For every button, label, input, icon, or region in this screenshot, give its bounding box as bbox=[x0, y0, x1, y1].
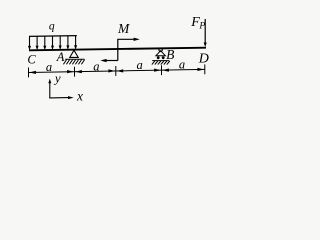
svg-text:P: P bbox=[198, 22, 205, 32]
dimension tick at A bbox=[74, 67, 76, 77]
roller support B hinge circle bbox=[159, 48, 162, 51]
pin support A triangle bbox=[70, 50, 78, 57]
svg-text:a: a bbox=[136, 58, 142, 72]
distributed load arrow 3 bbox=[43, 36, 46, 50]
force F_P arrow at D bbox=[204, 19, 206, 43]
distributed load arrow 4 bbox=[51, 36, 54, 50]
svg-text:a: a bbox=[46, 60, 52, 74]
dimension tick at C bbox=[28, 68, 30, 78]
y axis bbox=[49, 83, 51, 99]
dimension line C to D bbox=[29, 69, 206, 72]
svg-text:a: a bbox=[93, 60, 99, 74]
dimension arrowheads segment 2 bbox=[75, 70, 82, 73]
dimension tick at D bbox=[204, 64, 206, 74]
svg-text:a: a bbox=[179, 58, 185, 72]
svg-text:C: C bbox=[27, 52, 36, 66]
distributed load arrow 2 bbox=[36, 36, 39, 50]
pin support A ground line bbox=[65, 58, 84, 60]
dimension tick at M point bbox=[115, 66, 117, 76]
distributed load arrow 5 bbox=[59, 36, 62, 50]
moment M lower arm arrow (points left) bbox=[106, 60, 118, 62]
dimension tick at B bbox=[161, 65, 163, 75]
moment M couple: vertical stem bbox=[117, 39, 119, 60]
moment M upper arm arrow (points right) bbox=[117, 38, 135, 40]
svg-text:M: M bbox=[117, 21, 130, 36]
distributed load arrow 7 bbox=[74, 36, 77, 50]
dimension arrowheads segment 1 bbox=[29, 71, 36, 74]
x axis bbox=[49, 97, 68, 99]
distributed load arrow 1 bbox=[28, 36, 31, 50]
dimension arrowheads segment 3 bbox=[117, 69, 124, 72]
roller support B triangle bbox=[156, 51, 166, 56]
svg-text:x: x bbox=[76, 89, 83, 104]
distributed load q top line bbox=[29, 35, 77, 38]
distributed load arrow 6 bbox=[66, 36, 69, 50]
svg-text:y: y bbox=[53, 70, 61, 85]
svg-text:q: q bbox=[49, 20, 55, 32]
dimension arrowheads segment 4 bbox=[162, 69, 169, 72]
roller support B ground line bbox=[152, 60, 169, 62]
roller support B hatching bbox=[152, 61, 170, 65]
beam C-D bbox=[29, 48, 206, 51]
roller support B rollers bbox=[157, 56, 160, 59]
svg-text:B: B bbox=[166, 47, 174, 62]
svg-text:D: D bbox=[198, 51, 209, 66]
svg-text:A: A bbox=[56, 50, 65, 64]
pin support A hatching bbox=[63, 60, 84, 65]
